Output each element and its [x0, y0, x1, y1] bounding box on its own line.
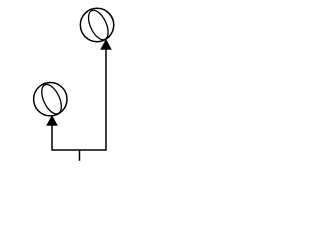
wire stub at bottom center [79, 150, 81, 161]
arrowhead A2 pointing up at balloon B2 [47, 116, 58, 126]
loop/balloon B1 outer ring (top right) [80, 8, 113, 41]
loop/balloon B2 outer ring (middle left) [34, 83, 67, 116]
wire: left branch down, across bottom, up to right branch [52, 49, 106, 150]
arrowhead A1 pointing up at balloon B1 [101, 40, 112, 50]
loop/balloon B1 inner ellipse (top right) [84, 7, 112, 42]
loop/balloon B2 inner ellipse (middle left) [38, 82, 66, 117]
